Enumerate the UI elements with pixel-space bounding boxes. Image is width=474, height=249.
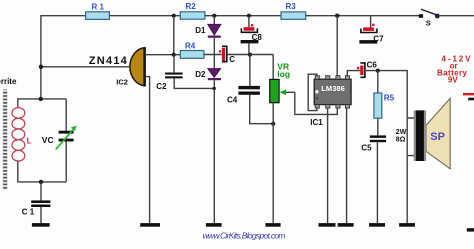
wire IC1 output pin to C6 xyxy=(347,71,360,76)
variable capacitor VC arrow xyxy=(56,129,74,150)
svg-text:Ferrite: Ferrite xyxy=(0,77,17,86)
wire D1 top lead xyxy=(213,16,215,25)
ground for VR xyxy=(265,223,280,227)
svg-text:C5: C5 xyxy=(361,144,372,153)
ground for IC2 xyxy=(140,223,160,227)
svg-text:D1: D1 xyxy=(195,26,206,35)
svg-text:log: log xyxy=(277,69,290,79)
wire capacitor C to VR node xyxy=(227,54,273,56)
svg-text:C2: C2 xyxy=(156,82,167,91)
wire C4 top lead xyxy=(249,55,251,86)
capacitor C7 red plate xyxy=(363,27,374,31)
svg-text:C6: C6 xyxy=(367,61,378,70)
wire rail switch to right edge xyxy=(440,15,474,17)
wire C4 bottom jog to VR line xyxy=(250,95,274,124)
node tank bottom junction xyxy=(39,180,43,184)
svg-text:C 1: C 1 xyxy=(22,207,35,216)
switch S contact xyxy=(419,14,423,18)
wire C1 top lead xyxy=(40,182,42,201)
node R1/R2 junction xyxy=(172,14,176,18)
svg-text:L: L xyxy=(27,136,32,145)
svg-text:2W: 2W xyxy=(396,129,407,136)
ground for speaker xyxy=(399,223,415,227)
wire R5 top lead xyxy=(377,71,379,93)
wire D1 to D2 vertical xyxy=(213,38,215,69)
ground for IC1 pin4 xyxy=(338,223,354,227)
capacitor C6 bracket plate xyxy=(360,63,365,77)
wire left vertical from rail to tank xyxy=(40,15,42,99)
switch S pivot dot xyxy=(435,14,440,19)
variable capacitor VC plates xyxy=(59,131,74,134)
ferrite rod xyxy=(2,90,7,191)
capacitor C8 bottom plate xyxy=(241,40,259,43)
wire R4 to capacitor C xyxy=(204,54,222,56)
wire VC bottom lead xyxy=(65,142,67,182)
capacitor C bracket plate xyxy=(222,46,227,61)
svg-text:IC2: IC2 xyxy=(116,78,128,87)
battery negative plate xyxy=(468,98,474,101)
svg-text:IC1: IC1 xyxy=(310,118,323,127)
wire C8 bottom lead xyxy=(248,43,250,54)
capacitor C4 xyxy=(238,86,260,89)
wire C6 to speaker corner xyxy=(365,70,407,72)
svg-text:LM386: LM386 xyxy=(321,84,345,93)
wire IC1 gain loop pin1 xyxy=(308,74,317,110)
resistor R5 xyxy=(374,93,382,118)
node V+ dropper junction xyxy=(335,14,339,18)
inductor L coil xyxy=(12,108,25,161)
IC1 pins top xyxy=(315,76,319,80)
node C8 top junction xyxy=(247,14,251,18)
wire C2 top lead xyxy=(173,55,175,73)
wire C2 bottom jog to D2 line xyxy=(174,78,214,88)
resistor R4 xyxy=(180,51,204,59)
capacitor C5 xyxy=(370,135,386,138)
op-amp IC1 LM386 body xyxy=(314,79,351,104)
svg-text:8Ω: 8Ω xyxy=(396,136,406,143)
node tank top junction xyxy=(39,97,43,101)
svg-text:D2: D2 xyxy=(195,70,206,79)
ground for D2 string xyxy=(206,223,222,227)
wire VR bottom to ground xyxy=(272,103,274,224)
wire VC top lead xyxy=(65,99,67,131)
wire C8 top lead xyxy=(248,16,250,28)
wire R5 to C5 xyxy=(377,118,379,135)
svg-text:9V: 9V xyxy=(448,75,458,84)
node D1 top junction xyxy=(212,14,216,18)
wire IC1 pin2 to ground xyxy=(327,108,329,223)
speaker SP cone xyxy=(426,98,450,169)
wire rail R3 to switch xyxy=(306,15,419,17)
diode D1 xyxy=(208,24,221,35)
capacitor C plus mark xyxy=(219,50,221,52)
wire C1 to ground xyxy=(40,207,42,223)
wire C7 top lead xyxy=(370,16,372,28)
svg-text:R4: R4 xyxy=(185,41,196,50)
wire VR wiper to IC1 pin3 xyxy=(295,92,338,114)
capacitor C8 plus mark xyxy=(251,24,253,26)
capacitor C8 cup plate xyxy=(241,28,257,32)
battery positive plate xyxy=(463,93,474,96)
ground for C5 xyxy=(369,223,385,227)
capacitor C2 xyxy=(165,73,183,75)
capacitor C8 red plate xyxy=(244,27,255,31)
node C6/R5 junction xyxy=(376,69,380,73)
capacitor C7 cup plate xyxy=(361,29,377,33)
node IC2 output junction xyxy=(172,53,176,57)
IC radio ZN414 IC2 body xyxy=(130,48,145,86)
wire tank top rail xyxy=(18,98,66,100)
wire tank bottom rail xyxy=(18,181,66,183)
wire tank to IC2 input xyxy=(41,66,129,68)
capacitor C7 bottom plate xyxy=(359,40,377,44)
wire rail R2 to R3 xyxy=(205,15,281,17)
IC1 pin1 marker dot xyxy=(315,90,318,93)
svg-text:C7: C7 xyxy=(373,35,384,44)
wire speaker terminal stubs xyxy=(407,118,414,156)
wire coil top stub xyxy=(17,98,19,108)
resistor R1 xyxy=(86,12,110,20)
wire V+ dropper to IC1 xyxy=(336,16,338,76)
wire VR top lead xyxy=(272,55,274,80)
wire rail R1 to R2 xyxy=(109,15,180,17)
capacitor C6 red plate xyxy=(360,66,363,76)
wire IC2 output to R4 xyxy=(145,54,180,56)
svg-text:R 1: R 1 xyxy=(92,3,105,12)
wire top rail left segment xyxy=(41,15,86,17)
ground for C1 xyxy=(32,223,50,227)
wire dropper rail to IC2 output node xyxy=(173,16,175,55)
resistor R3 xyxy=(281,12,306,19)
wire IC1 pin4 to ground xyxy=(346,108,348,223)
resistor R2 xyxy=(180,12,205,19)
svg-text:www.CirKits.Blogspot.com: www.CirKits.Blogspot.com xyxy=(203,231,286,241)
svg-text:SP: SP xyxy=(430,131,445,143)
capacitor C1 xyxy=(31,200,50,203)
svg-text:VC: VC xyxy=(42,135,54,145)
IC1 pins bottom xyxy=(315,105,319,109)
wire C5 to ground xyxy=(376,142,378,223)
svg-text:R2: R2 xyxy=(186,2,197,11)
wire D2 cathode to ground xyxy=(213,80,215,223)
svg-text:C8: C8 xyxy=(252,33,263,42)
svg-text:ZN414: ZN414 xyxy=(89,55,128,67)
node IC2 input junction xyxy=(39,65,43,69)
svg-text:R3: R3 xyxy=(286,2,297,11)
capacitor C7 plus mark xyxy=(372,24,374,26)
svg-text:S: S xyxy=(426,19,431,28)
switch S lever xyxy=(421,9,437,15)
ground for battery (partial) xyxy=(467,228,474,231)
svg-text:R5: R5 xyxy=(384,94,395,103)
wire IC2 ground stub xyxy=(145,77,149,224)
potentiometer VR wiper arrow xyxy=(285,91,295,93)
svg-text:C4: C4 xyxy=(227,95,238,104)
wire coil bottom stub xyxy=(17,161,19,183)
diode D2 xyxy=(208,69,221,78)
wire speaker vertical xyxy=(406,70,408,223)
node C/C4 junction xyxy=(248,53,252,57)
ground for IC1 pin2 xyxy=(319,223,336,227)
potentiometer VR body xyxy=(270,79,279,102)
speaker SP driver xyxy=(414,110,426,161)
svg-text:C: C xyxy=(229,55,235,64)
capacitor C red plate xyxy=(222,48,225,61)
node C2/D2 junction xyxy=(213,87,216,90)
capacitor C6 plus mark xyxy=(357,67,359,69)
node C4/VR junction xyxy=(271,122,275,126)
